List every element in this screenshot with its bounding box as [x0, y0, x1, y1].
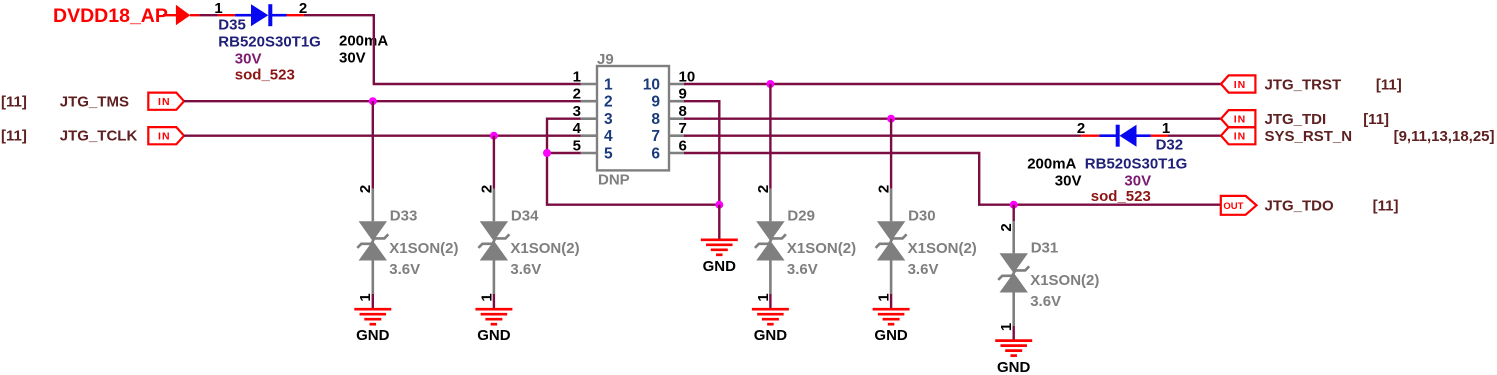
svg-text:30V: 30V — [1055, 173, 1082, 190]
wire D35 cathode to connector pin 1 — [304, 15, 581, 84]
wire connector pin 6 to JTG_TDO port — [684, 153, 1221, 205]
tvs diode D30 — [876, 189, 907, 294]
svg-text:GND: GND — [997, 359, 1031, 375]
wire D30 anode to GND — [890, 294, 892, 309]
svg-text:6: 6 — [651, 146, 660, 163]
connector left pin stub 5 — [581, 152, 598, 155]
svg-text:[11]: [11] — [1, 93, 27, 110]
junction node pin5 / ground bus — [543, 149, 551, 157]
wire D33 anode to GND — [372, 294, 374, 309]
connector left pin stub 1 — [581, 83, 598, 86]
svg-text:D32: D32 — [1156, 137, 1184, 154]
svg-text:DVDD18_AP: DVDD18_AP — [53, 5, 168, 27]
svg-text:DNP: DNP — [598, 172, 630, 189]
svg-text:2: 2 — [755, 185, 772, 193]
port IN SYS_RST_N — [1221, 127, 1255, 144]
connector right pin stub 9 — [669, 100, 686, 103]
svg-text:D31: D31 — [1031, 240, 1059, 257]
svg-text:D33: D33 — [390, 208, 418, 225]
connector J9 body — [597, 66, 669, 170]
svg-text:JTG_TDO: JTG_TDO — [1265, 197, 1335, 214]
svg-text:D35: D35 — [218, 17, 246, 34]
svg-text:3.6V: 3.6V — [787, 261, 818, 278]
svg-text:3.6V: 3.6V — [908, 261, 939, 278]
svg-text:D30: D30 — [908, 208, 936, 225]
wire D31 anode to GND — [1013, 326, 1015, 341]
svg-text:2: 2 — [478, 185, 495, 193]
svg-text:2: 2 — [357, 185, 374, 193]
ground GND below D30 — [873, 308, 910, 311]
svg-text:30V: 30V — [1124, 173, 1151, 190]
svg-text:J9: J9 — [597, 51, 614, 68]
wire power to D35 anode — [199, 14, 218, 16]
svg-text:3: 3 — [573, 103, 581, 120]
svg-text:[11]: [11] — [1363, 111, 1389, 128]
port IN JTG_TDI — [1221, 110, 1255, 127]
svg-text:GND: GND — [356, 327, 390, 344]
port OUT JTG_TDO — [1221, 196, 1257, 215]
svg-text:GND: GND — [874, 327, 908, 344]
svg-text:SYS_RST_N: SYS_RST_N — [1265, 128, 1353, 145]
junction node JTG_TMS / D33 — [369, 97, 377, 105]
connector right pin stub 8 — [669, 117, 686, 120]
svg-text:D34: D34 — [511, 208, 539, 225]
svg-text:4: 4 — [604, 128, 613, 145]
svg-text:3.6V: 3.6V — [1030, 293, 1061, 310]
svg-text:JTG_TCLK: JTG_TCLK — [60, 127, 138, 144]
svg-text:5: 5 — [573, 137, 581, 154]
svg-text:[11]: [11] — [1, 127, 27, 144]
tvs diode D31 — [998, 221, 1029, 326]
wire junction down to D30 — [890, 119, 892, 189]
wire junction down to D31 — [1013, 205, 1015, 221]
svg-text:GND: GND — [754, 327, 788, 344]
svg-text:JTG_TDI: JTG_TDI — [1265, 111, 1327, 128]
connector right pin stub 7 — [669, 134, 686, 137]
svg-text:2: 2 — [1077, 120, 1085, 137]
pin 2 of D32 lead segment — [1081, 134, 1099, 136]
svg-text:IN: IN — [158, 96, 171, 108]
svg-text:IN: IN — [1234, 131, 1247, 143]
svg-text:GND: GND — [703, 258, 737, 275]
svg-text:3.6V: 3.6V — [389, 261, 420, 278]
svg-text:2: 2 — [573, 86, 581, 103]
svg-text:30V: 30V — [339, 49, 366, 66]
svg-text:JTG_TRST: JTG_TRST — [1265, 76, 1342, 93]
wire connector pin 8 to JTG_TDI port — [684, 117, 1221, 119]
svg-text:9: 9 — [651, 94, 660, 111]
wire junction down to D33 — [372, 101, 374, 189]
ground GND below D29 — [752, 308, 789, 311]
port IN JTG_TMS — [148, 93, 184, 110]
svg-text:X1SON(2): X1SON(2) — [1030, 272, 1099, 289]
svg-text:RB520S30T1G: RB520S30T1G — [1085, 156, 1188, 173]
wire D29 anode to GND — [769, 294, 771, 309]
svg-text:2: 2 — [604, 94, 613, 111]
svg-text:4: 4 — [573, 120, 582, 137]
svg-text:X1SON(2): X1SON(2) — [908, 240, 977, 257]
junction node ground bus / pin9 / GND — [715, 201, 723, 209]
svg-text:2: 2 — [998, 223, 1015, 231]
svg-text:2: 2 — [876, 185, 893, 193]
svg-text:JTG_TMS: JTG_TMS — [60, 93, 129, 110]
tvs diode D29 — [755, 189, 786, 294]
wire junction down to D34 — [493, 136, 495, 189]
port IN JTG_TRST — [1221, 75, 1255, 92]
svg-text:8: 8 — [651, 111, 660, 128]
junction node JTG_TRST / D29 — [766, 80, 774, 88]
connector right pin stub 6 — [669, 152, 686, 155]
svg-text:200mA: 200mA — [1027, 156, 1076, 173]
svg-text:1: 1 — [214, 0, 222, 17]
svg-text:sod_523: sod_523 — [235, 67, 295, 84]
wire connector pin 5 to ground bus — [547, 152, 581, 154]
connector left pin stub 3 — [581, 117, 598, 120]
pin 1 of D32 lead segment — [1151, 134, 1168, 136]
junction node JTG_TCLK / D34 — [490, 132, 498, 140]
connector left pin stub 4 — [581, 134, 598, 137]
port IN JTG_TCLK — [148, 127, 184, 144]
svg-text:30V: 30V — [235, 50, 262, 67]
svg-text:X1SON(2): X1SON(2) — [389, 240, 458, 257]
junction node JTG_TDI / D30 — [887, 115, 895, 123]
svg-text:IN: IN — [1234, 114, 1247, 126]
junction node JTG_TDO / D31 — [1010, 201, 1018, 209]
svg-text:[11]: [11] — [1373, 197, 1399, 214]
wire junction to GND symbol — [718, 205, 720, 240]
ground GND (center) — [701, 238, 738, 241]
diode D35 — [235, 4, 286, 26]
wire connector pin 9 to ground — [684, 101, 719, 205]
svg-text:RB520S30T1G: RB520S30T1G — [218, 34, 321, 51]
ground GND below D31 — [995, 339, 1032, 342]
svg-text:D29: D29 — [787, 208, 815, 225]
svg-text:[9,11,13,18,25]: [9,11,13,18,25] — [1394, 128, 1495, 145]
svg-text:7: 7 — [651, 128, 660, 145]
tvs diode D34 — [478, 189, 509, 294]
wire D32 anode to SYS_RST_N port — [1168, 134, 1222, 136]
ground GND below D34 — [475, 308, 512, 311]
pin 1 of D35 lead segment — [218, 14, 235, 16]
wire JTG_TCLK to connector pin 4 — [184, 134, 581, 136]
svg-text:5: 5 — [604, 146, 613, 163]
svg-text:GND: GND — [477, 327, 511, 344]
wire connector pin 3 to ground bus — [547, 119, 719, 205]
wire D34 anode to GND — [493, 294, 495, 309]
svg-text:IN: IN — [1234, 79, 1247, 91]
svg-text:[11]: [11] — [1376, 76, 1402, 93]
tvs diode D33 — [357, 189, 388, 294]
svg-text:1: 1 — [1162, 120, 1170, 137]
pin 2 of D35 lead segment — [287, 14, 304, 16]
svg-text:X1SON(2): X1SON(2) — [510, 240, 579, 257]
diode D32 — [1099, 125, 1151, 147]
svg-text:X1SON(2): X1SON(2) — [787, 240, 856, 257]
svg-text:3.6V: 3.6V — [510, 261, 541, 278]
svg-text:IN: IN — [158, 131, 171, 143]
svg-text:OUT: OUT — [1223, 201, 1243, 212]
wire JTG_TMS to connector pin 2 — [184, 100, 581, 102]
connector left pin stub 2 — [581, 100, 598, 103]
power arrow symbol — [163, 5, 199, 25]
connector right pin stub 10 — [669, 83, 686, 86]
ground GND below D33 — [354, 308, 391, 311]
wire connector pin 7 to D32 cathode — [684, 134, 1081, 136]
svg-text:1: 1 — [604, 77, 613, 94]
svg-text:200mA: 200mA — [339, 33, 388, 50]
svg-text:sod_523: sod_523 — [1091, 188, 1151, 205]
svg-text:10: 10 — [643, 77, 660, 94]
svg-text:3: 3 — [604, 111, 613, 128]
wire junction down to D29 — [769, 84, 771, 189]
svg-text:1: 1 — [573, 68, 581, 85]
wire connector pin 10 to JTG_TRST port — [684, 83, 1221, 85]
